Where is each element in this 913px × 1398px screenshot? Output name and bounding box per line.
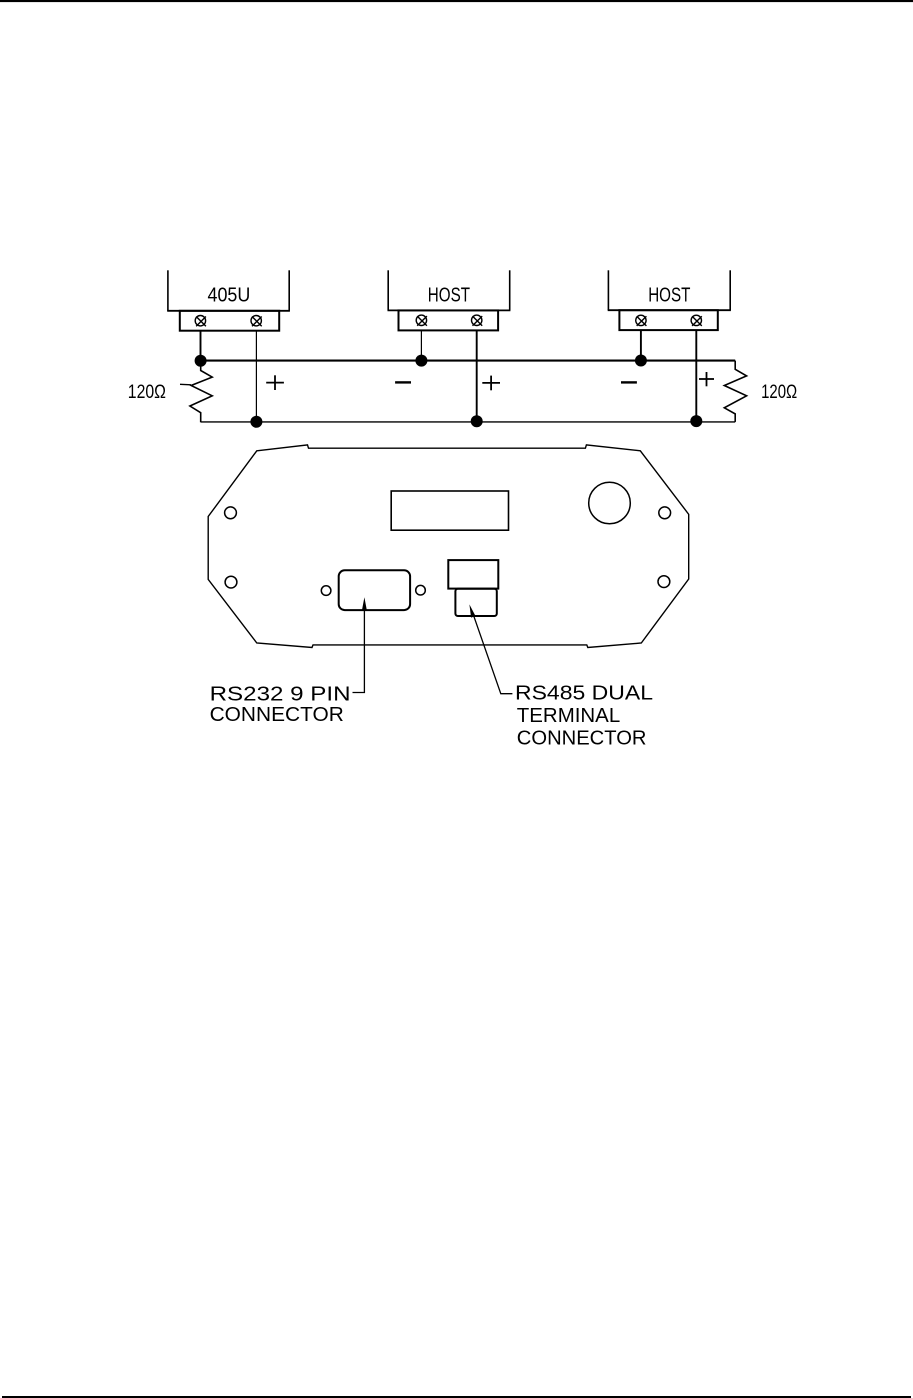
405U rear-panel plate outline	[208, 445, 689, 648]
bottom page rule	[2, 1396, 911, 1398]
wire U2 terminal B down to bottom bus	[476, 330, 478, 421]
screw terminal TB2-A	[416, 315, 427, 326]
display window rectangle	[391, 491, 508, 530]
terminating resistor R1 (left 120 ohm)	[190, 361, 212, 423]
mounting hole top-right	[659, 507, 671, 519]
svg-text:HOST: HOST	[428, 285, 470, 307]
leader arrow into DB9 connector	[362, 597, 367, 610]
bottom bus wire (plus line)	[201, 421, 736, 423]
leader arrow into RS485 connector	[469, 604, 475, 617]
mounting hole bottom-left	[225, 576, 237, 588]
svg-text:CONNECTOR: CONNECTOR	[517, 727, 647, 750]
svg-text:RS232 9 PIN: RS232 9 PIN	[210, 682, 351, 705]
top bus wire (minus line)	[201, 360, 736, 362]
terminal block TB1	[180, 311, 279, 331]
top page rule	[0, 0, 913, 2]
DB9 jack screw hole left	[321, 586, 331, 596]
RS232 DB9 connector J1	[339, 570, 410, 610]
wire U3 terminal A down to top bus	[640, 330, 642, 360]
polarity mark + (net segment 2)	[482, 376, 500, 391]
svg-text:120Ω: 120Ω	[128, 382, 166, 403]
wire U1 terminal A down to top bus	[200, 331, 202, 361]
polarity mark - (net segment 2)	[395, 381, 411, 383]
screw terminal TB3-A	[636, 315, 647, 326]
junction dot: U1-A on top bus	[195, 355, 207, 367]
junction dot: U1-B on bottom bus	[250, 416, 262, 428]
device box U1 (405U)	[167, 270, 290, 311]
svg-text:TERMINAL: TERMINAL	[517, 704, 620, 727]
terminal block TB3	[619, 310, 717, 330]
polarity mark - (net segment 3)	[621, 381, 637, 383]
screw terminal TB1-A	[195, 316, 206, 327]
screw terminal TB1-B	[251, 316, 262, 327]
DB9 jack screw hole right	[416, 585, 426, 595]
mounting hole top-left	[225, 507, 237, 519]
wire U2 terminal A down to top bus	[420, 330, 422, 360]
mounting hole bottom-right	[658, 576, 670, 588]
terminal block TB2	[399, 310, 499, 330]
svg-text:CONNECTOR: CONNECTOR	[210, 703, 344, 726]
screw terminal TB2-B	[472, 315, 483, 326]
leader tick from R1 label	[180, 383, 191, 386]
leader line RS232 label	[353, 609, 365, 693]
terminating resistor R2 (right 120 ohm)	[724, 361, 746, 422]
junction dot: U2-B on bottom bus	[471, 415, 483, 427]
svg-text:120Ω: 120Ω	[761, 382, 797, 403]
svg-text:HOST: HOST	[648, 285, 690, 307]
polarity mark + (net segment 1)	[266, 375, 284, 390]
device box U3 (HOST)	[608, 270, 731, 310]
junction dot: U2-A on top bus	[415, 355, 427, 367]
device box U2 (HOST)	[388, 270, 511, 310]
svg-text:405U: 405U	[208, 285, 251, 307]
wire U3 terminal B down to bottom bus	[695, 330, 697, 421]
junction dot: U3-B on bottom bus	[690, 415, 702, 427]
RS485 terminal connector J2 lower plug	[455, 589, 496, 616]
RS485 terminal connector J2 upper body	[448, 560, 498, 589]
leader line RS485 label	[473, 613, 513, 694]
polarity mark + (net segment 3)	[699, 372, 714, 386]
screw terminal TB3-B	[691, 315, 702, 326]
svg-text:RS485 DUAL: RS485 DUAL	[515, 682, 653, 705]
junction dot: U3-A on top bus	[635, 355, 647, 367]
wire U1 terminal B down to bottom bus	[255, 331, 257, 422]
antenna connector circle	[589, 482, 631, 524]
